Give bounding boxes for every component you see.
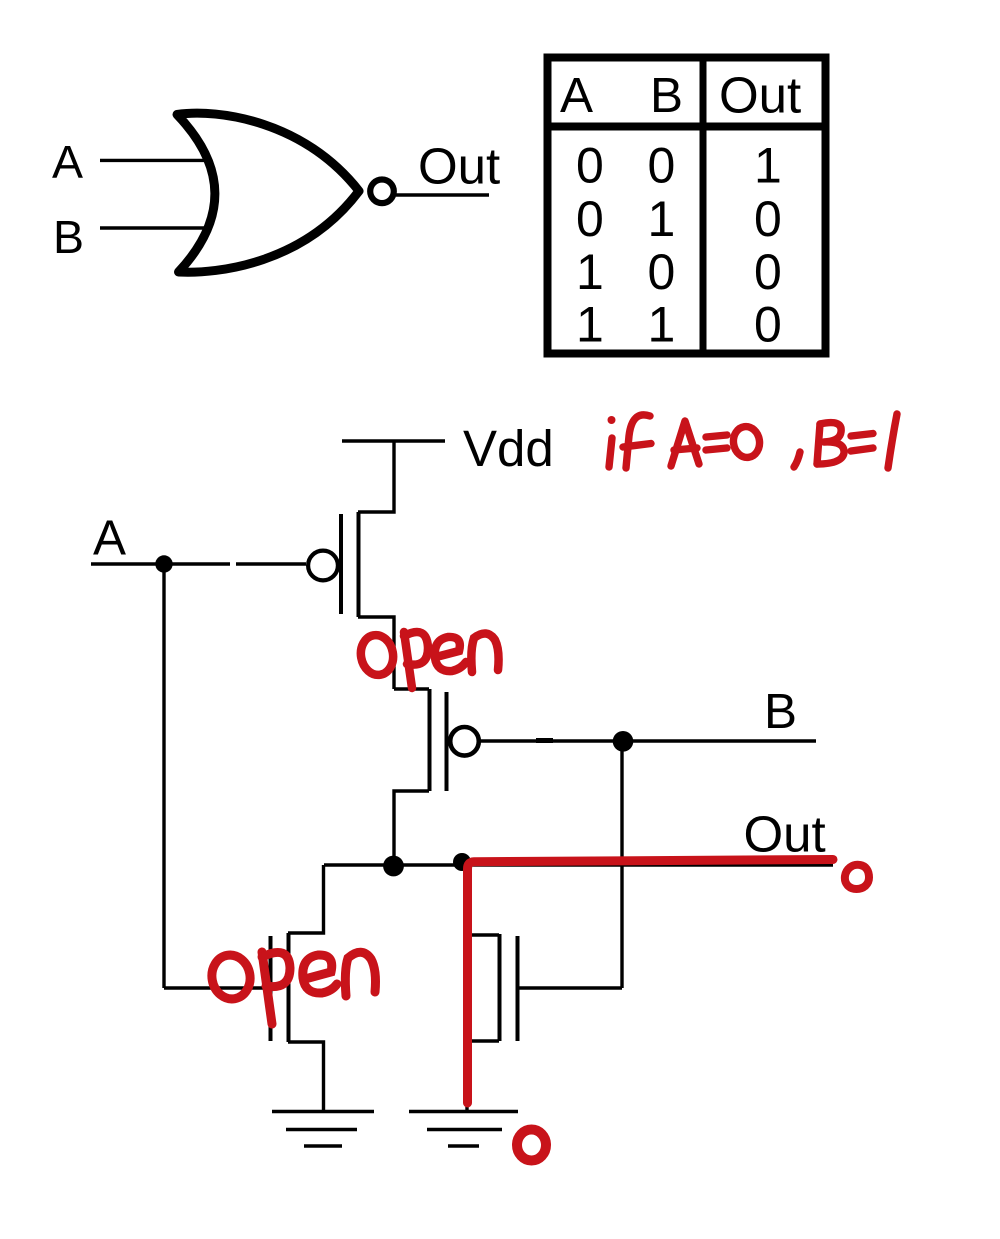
red annotation: highlighted Out path (elbow) bbox=[468, 860, 834, 1104]
transistor Q1 PMOS gate bubble bbox=[308, 551, 338, 581]
junction dot on B bbox=[613, 731, 634, 752]
svg-text:0: 0 bbox=[754, 191, 782, 247]
transistor Q2 PMOS gate bubble bbox=[450, 727, 479, 756]
wire A input to NOR gate bbox=[100, 159, 208, 162]
= bbox=[851, 434, 873, 437]
svg-text:B: B bbox=[53, 211, 84, 263]
svg-text:0: 0 bbox=[576, 191, 604, 247]
svg-text:1: 1 bbox=[576, 244, 604, 300]
0 bbox=[731, 425, 761, 459]
transistor Q4 NMOS channel bar bbox=[498, 934, 502, 1041]
NOR gate U1 body bbox=[177, 113, 359, 272]
junction dot Out node left bbox=[383, 856, 404, 877]
, bbox=[794, 452, 800, 467]
wire A down to Q3 gate bbox=[162, 564, 165, 988]
svg-text:0: 0 bbox=[648, 244, 676, 300]
junction dot on A bbox=[155, 555, 172, 572]
Vdd rail wire bbox=[342, 439, 445, 442]
transistor Q1 PMOS gate bar bbox=[339, 514, 343, 614]
red annotation: open (upper) bbox=[358, 632, 499, 688]
wire A input (circuit) bbox=[91, 562, 230, 565]
f bbox=[626, 415, 650, 468]
wire Out node horizontal bbox=[324, 863, 833, 866]
svg-text:0: 0 bbox=[576, 138, 604, 194]
wire Q2 gate to B bbox=[480, 739, 816, 742]
ground symbol left bbox=[272, 1112, 374, 1147]
NOR gate U1 inversion bubble bbox=[370, 180, 394, 204]
wire Q4 gate lead bbox=[518, 986, 622, 989]
svg-text:Out: Out bbox=[719, 67, 801, 124]
svg-text:0: 0 bbox=[754, 244, 782, 300]
ground symbol right bbox=[409, 1112, 518, 1147]
1 bbox=[888, 414, 897, 468]
wire B overlap dash bbox=[536, 738, 553, 743]
transistor Q3 NMOS gate bar bbox=[269, 936, 273, 1041]
wire NOR gate output bbox=[396, 193, 489, 196]
transistor Q2 PMOS gate bar bbox=[445, 692, 449, 791]
red annotation: if A=0, B=1 bbox=[608, 414, 898, 468]
transistor Q3 NMOS channel bar bbox=[287, 933, 291, 1042]
svg-text:1: 1 bbox=[754, 138, 782, 194]
svg-text:1: 1 bbox=[648, 191, 676, 247]
svg-text:1: 1 bbox=[648, 297, 676, 353]
junction dot Out node right bbox=[453, 853, 471, 871]
red annotation: open (lower) bbox=[208, 952, 375, 1024]
svg-text:A: A bbox=[93, 511, 126, 566]
svg-text:A: A bbox=[52, 136, 83, 188]
transistor Q2 PMOS source stub bbox=[394, 687, 429, 690]
svg-text:A: A bbox=[560, 68, 593, 123]
transistor Q1 PMOS drain stub bbox=[358, 617, 394, 689]
transistor Q4 NMOS gate bar bbox=[516, 936, 520, 1041]
svg-text:Out: Out bbox=[418, 138, 500, 195]
i bbox=[608, 416, 616, 424]
svg-text:1: 1 bbox=[576, 297, 604, 353]
svg-text:B: B bbox=[650, 68, 683, 123]
transistor Q3 NMOS drain stub bbox=[288, 865, 324, 933]
transistor Q2 PMOS drain stub bbox=[394, 791, 429, 866]
transistor Q1 PMOS channel bar bbox=[357, 512, 361, 617]
transistor Q3 NMOS source stub bbox=[288, 1042, 324, 1110]
= bbox=[706, 435, 727, 437]
B bbox=[817, 424, 820, 464]
red annotation: 0 at line end bbox=[845, 865, 869, 889]
svg-text:Out: Out bbox=[744, 806, 826, 863]
transistor Q4 NMOS drain stub bbox=[467, 865, 499, 935]
svg-text:0: 0 bbox=[648, 138, 676, 194]
transistor Q1 PMOS source stub bbox=[358, 441, 394, 512]
transistor Q2 PMOS channel bar bbox=[428, 689, 432, 791]
A bbox=[671, 421, 699, 466]
svg-text:0: 0 bbox=[754, 297, 782, 353]
truth table frame bbox=[544, 54, 830, 354]
svg-text:B: B bbox=[764, 684, 797, 739]
red annotation: 0 at ground bbox=[517, 1130, 546, 1161]
wire A to Q1 gate bbox=[236, 562, 306, 565]
wire B input to NOR gate bbox=[100, 226, 204, 229]
transistor Q4 NMOS source stub bbox=[467, 1041, 499, 1110]
wire Q3 gate lead bbox=[164, 986, 270, 989]
svg-text:Vdd: Vdd bbox=[463, 420, 554, 477]
wire B down to Q4 gate bbox=[620, 741, 623, 988]
